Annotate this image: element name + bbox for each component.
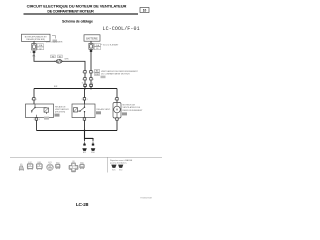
motor M1 bbox=[113, 103, 121, 119]
connector view E21 round bbox=[47, 162, 54, 171]
svg-text:Schéma de câblage: Schéma de câblage bbox=[62, 19, 93, 23]
badge E5 right of box bbox=[52, 36, 57, 43]
svg-text:(IPDM E/R): (IPDM E/R) bbox=[55, 112, 66, 114]
badge E5 below text bbox=[101, 76, 106, 79]
wires from row3 to bus bbox=[85, 87, 91, 89]
svg-text:1: 1 bbox=[114, 99, 115, 101]
motor bottom pin bbox=[116, 118, 119, 120]
drop to right relay bbox=[84, 89, 86, 98]
svg-text:RELAIS VENT.: RELAIS VENT. bbox=[97, 108, 111, 111]
svg-text:1: 1 bbox=[30, 52, 31, 54]
wire from F1 down then right bbox=[34, 53, 56, 61]
title bbox=[27, 3, 127, 13]
svg-text:Vers le E-START: Vers le E-START bbox=[103, 43, 119, 46]
ground branch split bbox=[85, 131, 94, 140]
page badge 10 bbox=[140, 8, 149, 13]
wires to pin row3 bbox=[85, 80, 91, 84]
svg-text:2: 2 bbox=[82, 72, 83, 74]
pin 1 of F1 bbox=[30, 51, 35, 54]
drop to left relay bbox=[33, 89, 35, 98]
relay K1 left box bbox=[26, 104, 54, 118]
title underline bbox=[24, 13, 139, 14]
svg-text:E5: E5 bbox=[96, 71, 98, 73]
battery box bbox=[84, 35, 100, 41]
svg-text:RELAIS (IPDM E/R): RELAIS (IPDM E/R) bbox=[26, 38, 45, 41]
junction dots bbox=[84, 88, 86, 90]
svg-text:VENTILATEUR DE: VENTILATEUR DE bbox=[123, 106, 141, 109]
svg-text:2: 2 bbox=[31, 99, 32, 101]
svg-text:BOITE A FUSIBLES ET: BOITE A FUSIBLES ET bbox=[25, 35, 48, 38]
legend divider bbox=[107, 158, 109, 173]
wire battery to fuse F2 bbox=[90, 41, 92, 43]
svg-text:E5: E5 bbox=[20, 164, 22, 166]
svg-text:E5: E5 bbox=[59, 56, 61, 58]
svg-text:LC-COOL/F-01: LC-COOL/F-01 bbox=[103, 26, 140, 32]
svg-text:pour la distribution.: pour la distribution. bbox=[110, 162, 127, 165]
svg-text:3: 3 bbox=[82, 79, 83, 81]
wire from IPDM box down bbox=[33, 41, 35, 43]
svg-text:2: 2 bbox=[87, 99, 88, 101]
svg-text:CIRCUIT ELECTRIQUE DU MOTEUR D: CIRCUIT ELECTRIQUE DU MOTEUR DE VENTILAT… bbox=[27, 3, 127, 8]
component box IPDM E/R label bbox=[22, 34, 51, 41]
svg-text:1: 1 bbox=[93, 72, 94, 74]
motor label bbox=[122, 104, 143, 115]
svg-text:REFROIDISSEMENT: REFROIDISSEMENT bbox=[123, 110, 144, 112]
pin of F2 bbox=[90, 50, 92, 52]
pin left relay top bbox=[31, 98, 37, 101]
connector pins row1 on both feeders bbox=[82, 71, 94, 74]
connector view E50 small bbox=[56, 163, 60, 170]
relay K2 label bbox=[96, 108, 111, 115]
wire horizontal to corner then down bbox=[62, 61, 85, 70]
svg-text:1: 1 bbox=[36, 99, 37, 101]
inline connector labels bbox=[51, 55, 63, 58]
svg-text:2: 2 bbox=[54, 61, 55, 63]
separator line bbox=[10, 156, 162, 159]
svg-text:E21: E21 bbox=[83, 152, 86, 154]
svg-text:1: 1 bbox=[82, 99, 83, 101]
svg-text:3: 3 bbox=[34, 119, 35, 121]
legend text bbox=[110, 159, 133, 165]
wire from F2 down bbox=[90, 52, 92, 71]
svg-text:VENTILATEUR DE REFROIDISSEMENT: VENTILATEUR DE REFROIDISSEMENT bbox=[101, 70, 139, 73]
svg-text:DU COMPARTIMENT MOTEUR: DU COMPARTIMENT MOTEUR bbox=[101, 73, 130, 76]
svg-text:DE COMPARTIMENT MOTEUR: DE COMPARTIMENT MOTEUR bbox=[47, 10, 94, 14]
drop to motor bbox=[116, 89, 118, 98]
wires between pin rows bbox=[85, 73, 91, 78]
svg-text:E21: E21 bbox=[48, 162, 51, 164]
bottom bus bbox=[37, 130, 118, 132]
relay K1 label bbox=[55, 105, 70, 116]
connector view E5 bbox=[19, 164, 24, 171]
svg-text:10: 10 bbox=[143, 9, 147, 13]
svg-text:E50: E50 bbox=[119, 170, 122, 172]
connector view E60 small bbox=[80, 163, 84, 170]
connector view F8 cross bbox=[69, 161, 78, 172]
svg-text:W/R: W/R bbox=[65, 58, 69, 60]
svg-text:TKWB0984E: TKWB0984E bbox=[140, 198, 153, 200]
svg-text:RELAIS DE: RELAIS DE bbox=[55, 105, 66, 108]
svg-text:BATTERIE: BATTERIE bbox=[86, 37, 98, 40]
relay K2 right box bbox=[72, 104, 95, 118]
svg-text:LC-28: LC-28 bbox=[76, 202, 89, 208]
connector pins row2 bbox=[82, 78, 94, 81]
left relay bottom pins bbox=[34, 117, 49, 122]
connector view E38 bbox=[36, 162, 42, 170]
svg-text:E21: E21 bbox=[112, 170, 115, 172]
svg-text:MOTEUR DE: MOTEUR DE bbox=[123, 104, 136, 106]
connector view E12 bbox=[27, 162, 33, 170]
ground stubs dashed bbox=[85, 140, 94, 144]
svg-text:B/R: B/R bbox=[54, 86, 58, 88]
ground symbols E21 E50 bbox=[82, 148, 95, 154]
svg-text:Reportez-vous à MASSE: Reportez-vous à MASSE bbox=[110, 159, 133, 162]
svg-text:5: 5 bbox=[93, 79, 94, 81]
badges E5/E38 bbox=[95, 69, 100, 76]
inline connector on wire bbox=[54, 59, 63, 63]
fuse F1 bbox=[32, 44, 44, 51]
svg-text:4: 4 bbox=[39, 119, 40, 121]
svg-text:Vers le E-POWER: Vers le E-POWER bbox=[46, 41, 63, 44]
right relay bottom pin bbox=[83, 118, 86, 120]
legend ground symbol E50 bbox=[118, 165, 123, 172]
bus wire bbox=[34, 88, 117, 90]
legend ground symbol E21 bbox=[111, 165, 116, 172]
vers text near F2 bbox=[101, 43, 120, 46]
fuse F2 bbox=[89, 43, 101, 50]
svg-text:VENTILATEUR: VENTILATEUR bbox=[55, 108, 69, 111]
svg-text:E50: E50 bbox=[91, 152, 94, 154]
merge left relay outputs bbox=[36, 120, 38, 130]
svg-text:F8: F8 bbox=[52, 56, 54, 58]
connector pins row3 bbox=[84, 84, 93, 86]
label ventilateur text right bbox=[101, 70, 139, 76]
ground pins bbox=[83, 144, 94, 146]
svg-text:E38: E38 bbox=[95, 74, 98, 76]
